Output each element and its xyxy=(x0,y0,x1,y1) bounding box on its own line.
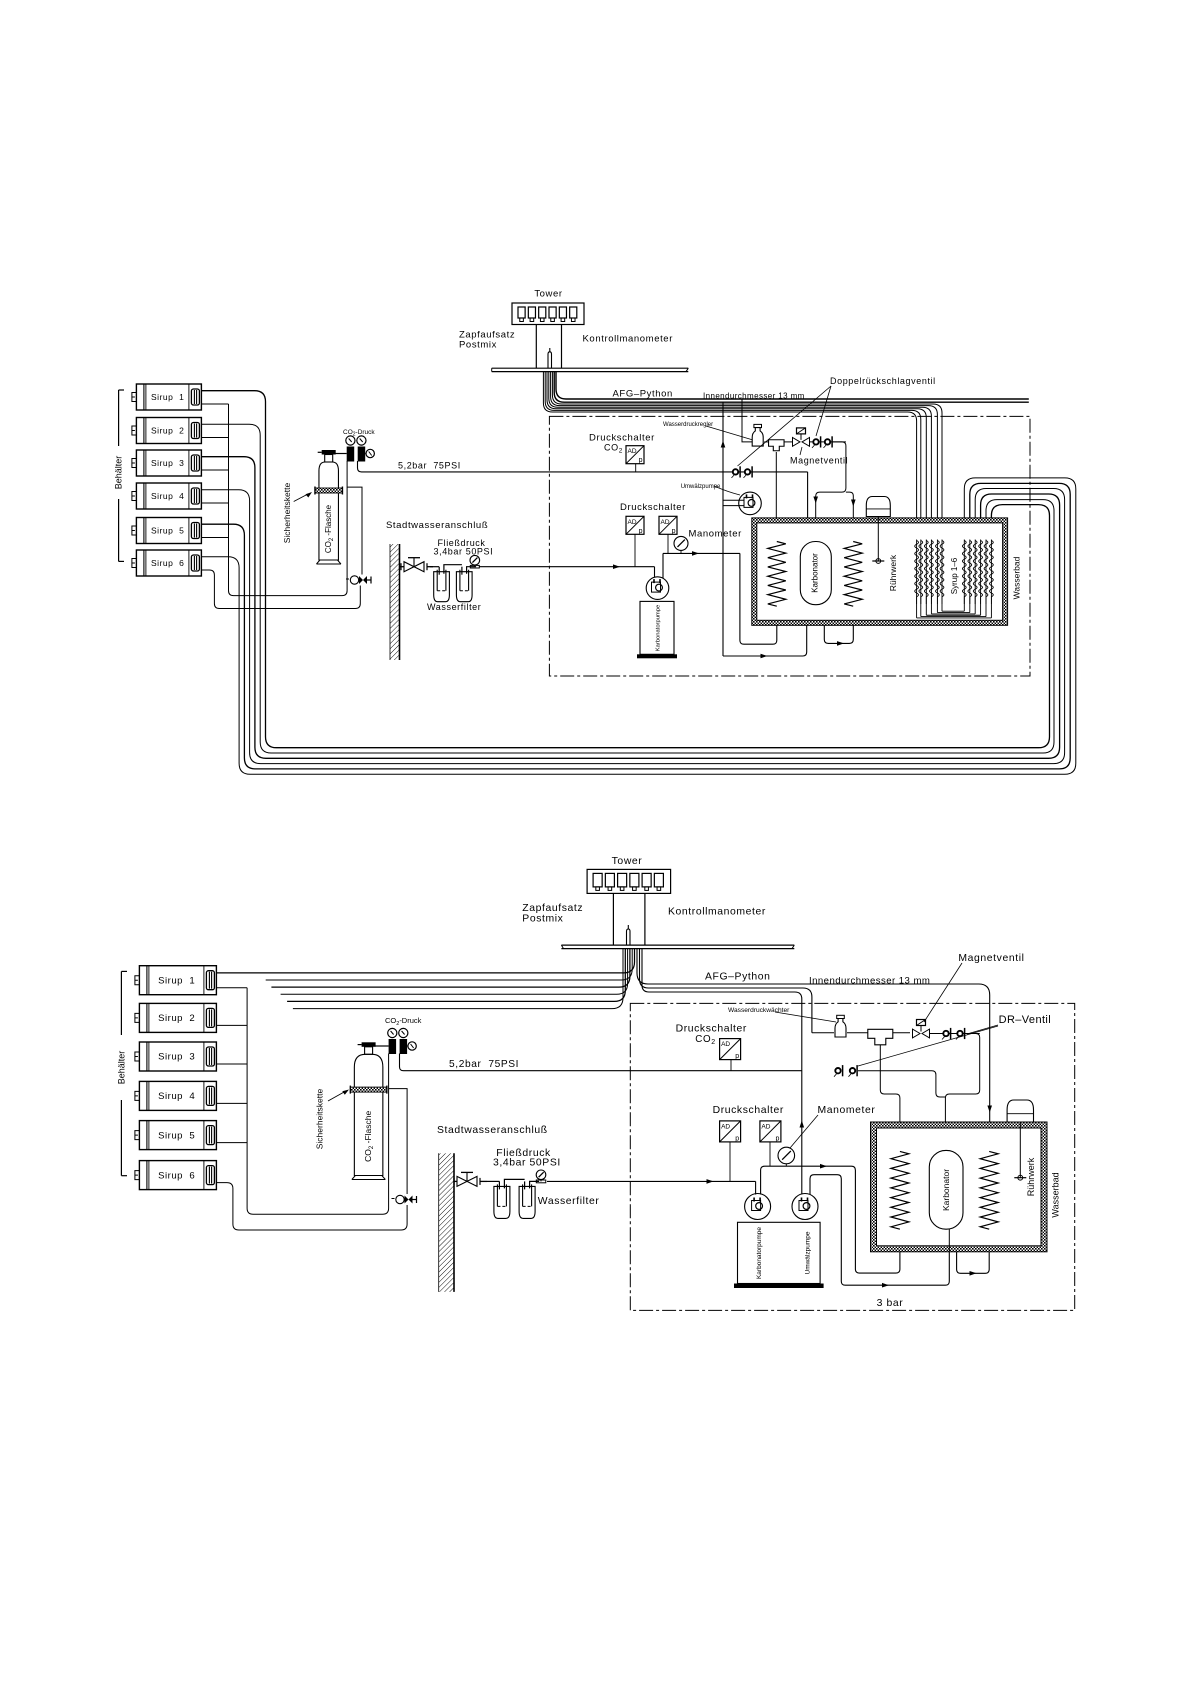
svg-text:Sirup 1: Sirup 1 xyxy=(151,392,184,402)
T-fitting (top) xyxy=(769,440,785,451)
svg-text:Magnetventil: Magnetventil xyxy=(790,456,848,466)
wire karbonator bottom stub (bottom) xyxy=(948,1229,950,1251)
carbonator vessel Karbonator (top) xyxy=(800,542,831,605)
svg-text:p: p xyxy=(639,457,643,464)
cooling coil 1 (top) xyxy=(768,542,786,607)
wire pump2 outlet line (bottom) xyxy=(810,1175,949,1286)
svg-text:Druckschalter: Druckschalter xyxy=(620,502,686,513)
wire regulator riser (top) xyxy=(742,399,752,442)
wire regler to T (top) xyxy=(764,441,768,443)
DR check valves CO2 line (bottom) xyxy=(834,1065,857,1077)
svg-text:DR–Ventil: DR–Ventil xyxy=(999,1014,1052,1026)
wire CO2 to karbonator (bottom) xyxy=(858,1071,945,1097)
svg-text:Sirup 5: Sirup 5 xyxy=(158,1130,195,1141)
svg-text:Zapfaufsatz: Zapfaufsatz xyxy=(522,903,583,914)
svg-text:Syrup 1–6: Syrup 1–6 xyxy=(950,557,959,594)
T-fitting (bottom) xyxy=(868,1029,893,1045)
svg-text:Behälter: Behälter xyxy=(116,1051,126,1085)
wire CO2 main 5,2bar line (top) xyxy=(358,461,724,472)
wire city water line to machine (top) xyxy=(480,566,655,568)
wire AFG-Python bundle (top) xyxy=(543,372,1028,540)
water filters (top) xyxy=(434,565,476,602)
wire DR output down (bottom) xyxy=(945,1034,979,1151)
CO2 bottle CO2-Flasche (bottom) xyxy=(350,1042,387,1179)
svg-text:5,2bar 75PSI: 5,2bar 75PSI xyxy=(398,460,461,470)
cooling coil 2 (top) xyxy=(844,542,862,607)
wire python riser stub (top) xyxy=(548,348,552,368)
pressure switch 2 AD/p (top) xyxy=(659,516,677,535)
wire T to solenoid (top) xyxy=(784,441,792,443)
counter top (bottom diagram) xyxy=(561,945,794,949)
agitator Ruehrwerk (bottom) xyxy=(1007,1100,1033,1180)
label Syrup 1-6 (top) xyxy=(949,553,961,599)
wall city water (top) xyxy=(390,544,400,660)
tower (bottom diagram) xyxy=(587,869,671,893)
syrup container Sirup 2 (top) xyxy=(132,417,202,443)
counter top (top diagram) xyxy=(492,368,689,371)
machine cabinet boundary (top) xyxy=(549,416,1030,676)
wire syrup supply line 1 wrap (top) xyxy=(201,391,1049,748)
svg-text:Sirup 5: Sirup 5 xyxy=(151,526,184,536)
svg-text:p: p xyxy=(672,528,676,535)
pressure switch 1 AD/p (bottom) xyxy=(720,1121,741,1143)
svg-text:Wasserbad: Wasserbad xyxy=(1012,556,1022,599)
svg-text:5,2bar 75PSI: 5,2bar 75PSI xyxy=(449,1059,519,1070)
CO2 bottle CO2-Flasche (top) xyxy=(315,450,343,564)
pressure switch 1 AD/p (top) xyxy=(626,516,644,535)
syrup container Sirup 6 (top) xyxy=(132,550,202,576)
svg-text:Druckschalter: Druckschalter xyxy=(676,1024,747,1035)
pressure switch CO2 AD/p (top) xyxy=(626,446,644,465)
wire syrup supply line 4 wrap (top) xyxy=(201,488,1064,763)
water filters (bottom) xyxy=(487,1179,539,1218)
leader Umwaelzpumpe (top) xyxy=(714,486,740,495)
svg-text:AD: AD xyxy=(661,519,670,526)
svg-text:AD: AD xyxy=(721,1123,730,1130)
pressure switch CO2 AD/p (bottom) xyxy=(720,1039,741,1061)
carbonator pump motor (top) xyxy=(646,577,669,600)
wire CO2 second outlet down (top) xyxy=(347,487,362,574)
wire checks to bath feeds (top) xyxy=(816,442,846,542)
pump base Karbonatorpumpe Umwaelzpumpe (bottom) xyxy=(734,1222,824,1288)
svg-text:Innendurchmesser 13 mm: Innendurchmesser 13 mm xyxy=(703,392,805,401)
wire city water line to machine (bottom) xyxy=(547,1180,756,1182)
wire CO2 switch stem (top) xyxy=(635,464,637,472)
syrup container Sirup 3 (bottom) xyxy=(135,1042,217,1071)
wire syrup supply line 3 wrap (top) xyxy=(201,457,1059,759)
leader Doppelrueckschlagventil 2 (top) xyxy=(738,386,832,466)
wire syrup supply line 6 wrap (top) xyxy=(201,478,1075,774)
svg-text:Tower: Tower xyxy=(534,288,562,299)
svg-text:AD: AD xyxy=(628,519,637,526)
inlet gate valve (top) xyxy=(400,558,434,572)
svg-text:Stadtwasseranschluß: Stadtwasseranschluß xyxy=(386,520,488,531)
wire switch2 stem (top) xyxy=(667,534,669,553)
svg-text:Manometer: Manometer xyxy=(817,1105,875,1116)
DR check valves (bottom) xyxy=(929,1028,979,1040)
svg-text:p: p xyxy=(735,1135,739,1142)
svg-text:Sirup 1: Sirup 1 xyxy=(158,975,195,986)
svg-text:Stadtwasseranschluß: Stadtwasseranschluß xyxy=(437,1125,548,1136)
svg-text:3 bar: 3 bar xyxy=(877,1298,904,1309)
wire karbonator to coil2 bottom (top) xyxy=(824,605,853,644)
svg-text:Karbonatorpumpe: Karbonatorpumpe xyxy=(656,605,662,651)
svg-text:3,4bar 50PSI: 3,4bar 50PSI xyxy=(434,546,494,556)
carbonator pump body Karbonatorpumpe (top) xyxy=(637,601,677,658)
svg-text:AD: AD xyxy=(761,1123,770,1130)
wire switch1 stem (top) xyxy=(634,534,636,566)
svg-text:Sirup 3: Sirup 3 xyxy=(151,458,184,468)
svg-text:Sicherheitskette: Sicherheitskette xyxy=(282,482,292,543)
inlet gate valve (bottom) xyxy=(454,1172,487,1186)
syrup container Sirup 3 (top) xyxy=(132,450,202,476)
svg-text:AFG–Python: AFG–Python xyxy=(613,389,673,400)
leader Sicherheitskette arrow (top) xyxy=(294,494,308,502)
wire syrup supply line 5 wrap (top) xyxy=(201,483,1070,769)
svg-text:Wasserfilter: Wasserfilter xyxy=(538,1196,600,1207)
svg-text:Sirup 2: Sirup 2 xyxy=(158,1013,195,1024)
water pressure regulator (top) xyxy=(752,424,763,446)
cooling coil 2 (bottom) xyxy=(980,1151,998,1229)
svg-text:Sirup 6: Sirup 6 xyxy=(151,558,184,568)
svg-text:Manometer: Manometer xyxy=(689,529,742,540)
svg-text:Sirup 4: Sirup 4 xyxy=(158,1091,195,1102)
wire riser to karbonator bottom (top) xyxy=(723,605,807,656)
syrup container Sirup 4 (bottom) xyxy=(135,1081,217,1110)
wire container CO2 bus (top) xyxy=(201,404,347,596)
leader Magnetventil (bottom) xyxy=(924,963,962,1022)
wire tower feed lines (bottom) xyxy=(612,893,614,945)
shutoff valve below bottle (bottom) xyxy=(391,1195,416,1203)
water pressure monitor Wasserdruckwaechter (bottom) xyxy=(835,1015,846,1037)
wire container CO2 bus (bottom) xyxy=(216,988,388,1215)
water bath tank (bottom) xyxy=(870,1122,1047,1252)
svg-text:Rührwerk: Rührwerk xyxy=(1026,1157,1036,1196)
svg-text:Wasserbad: Wasserbad xyxy=(1050,1172,1060,1217)
pressure switch 2 AD/p (bottom) xyxy=(760,1121,781,1143)
wire pump outlet line (top) xyxy=(663,552,740,554)
svg-text:Karbonatorpumpe: Karbonatorpumpe xyxy=(756,1227,763,1279)
double check valve CO2 (top) xyxy=(732,466,753,478)
wire T to solenoid (bottom) xyxy=(893,1032,910,1034)
svg-text:Postmix: Postmix xyxy=(459,339,497,350)
circulation pump Umwaelzpumpe (top) xyxy=(723,492,761,515)
syrup coils Syrup 1-6 (top) xyxy=(915,540,994,618)
wire python riser stub (bottom) xyxy=(626,925,630,945)
wire coil2 bottom loop (bottom) xyxy=(957,1229,990,1273)
svg-text:Sirup 3: Sirup 3 xyxy=(158,1052,195,1063)
svg-text:Doppelrückschlagventil: Doppelrückschlagventil xyxy=(830,376,936,386)
shutoff valve below bottle (top) xyxy=(346,576,371,584)
flow pressure gauge (top) xyxy=(470,555,480,568)
svg-text:Behälter: Behälter xyxy=(114,456,124,490)
svg-text:Karbonator: Karbonator xyxy=(811,553,820,593)
syrup container Sirup 5 (bottom) xyxy=(135,1121,217,1150)
wire AFG-Python to machine (bottom) xyxy=(637,949,990,1152)
svg-text:Tower: Tower xyxy=(612,856,643,867)
double check valves after solenoid (top) xyxy=(810,436,846,448)
syrup container Sirup 5 (top) xyxy=(132,517,202,543)
wire riser to waechter (bottom) xyxy=(812,1032,834,1034)
tower (top diagram) xyxy=(512,303,584,325)
leader Sicherheitskette arrow (bottom) xyxy=(328,1091,345,1101)
wire main riser arrow (bottom) xyxy=(799,1121,804,1128)
wire CO2 down to Karbonator (top) xyxy=(807,472,809,542)
cooling coil 1 (bottom) xyxy=(891,1151,909,1229)
svg-text:AD: AD xyxy=(628,448,637,455)
wall city water (bottom) xyxy=(439,1153,454,1292)
bracket Behaelter (top) xyxy=(119,390,124,561)
wire container 6 CO2 line (top) xyxy=(201,570,360,609)
leader Magnetventil (top) xyxy=(800,447,802,455)
manometer (bottom) xyxy=(778,1147,795,1166)
wire syrup supply line 2 wrap (top) xyxy=(201,424,1054,753)
wire T stem to coil1 (bottom) xyxy=(880,1045,900,1151)
wire python riser main (top) xyxy=(722,402,724,656)
wire T stem to coil1 (top) xyxy=(775,452,777,542)
syrup container Sirup 4 (top) xyxy=(132,483,202,509)
svg-text:Druckschalter: Druckschalter xyxy=(713,1105,784,1116)
pump2 motor (bottom) xyxy=(792,1194,818,1220)
wire pump1 outlet line (bottom) xyxy=(761,1166,900,1273)
syrup container Sirup 1 (top) xyxy=(132,384,202,410)
pump1 motor (bottom) xyxy=(745,1194,771,1220)
svg-text:Sirup 2: Sirup 2 xyxy=(151,426,184,436)
wire water to pump1 (bottom) xyxy=(755,1181,757,1194)
wire CO2 switch stem (bottom) xyxy=(730,1060,732,1071)
svg-text:Karbonator: Karbonator xyxy=(941,1169,951,1211)
svg-text:AFG–Python: AFG–Python xyxy=(705,972,771,983)
svg-text:Sicherheitskette: Sicherheitskette xyxy=(314,1088,324,1149)
svg-text:Umwälzpumpe: Umwälzpumpe xyxy=(804,1231,811,1274)
carbonator vessel Karbonator (bottom) xyxy=(929,1150,963,1229)
syrup container Sirup 1 (bottom) xyxy=(135,966,217,995)
svg-text:p: p xyxy=(639,528,643,535)
wire switch2 stem (bottom) xyxy=(769,1142,771,1166)
svg-text:Magnetventil: Magnetventil xyxy=(958,953,1024,964)
solenoid valve Magnetventil (bottom) xyxy=(912,1020,929,1038)
wire CO2 second outlet down (bottom) xyxy=(389,1089,408,1194)
leader DR-Ventil 1 (bottom) xyxy=(967,1025,998,1034)
svg-text:Rührwerk: Rührwerk xyxy=(888,554,898,591)
water bath tank (top) xyxy=(752,518,1008,625)
solenoid valve Magnetventil (top) xyxy=(793,428,810,446)
syrup container Sirup 2 (bottom) xyxy=(135,1003,217,1032)
svg-text:Innendurchmesser 13 mm: Innendurchmesser 13 mm xyxy=(809,976,930,987)
wire regulator to container bus (top) xyxy=(346,461,348,463)
wire water to pump inlet (top) xyxy=(654,567,656,578)
flow pressure gauge (bottom) xyxy=(536,1170,546,1183)
leader Wasserdruckwaechter (bottom) xyxy=(775,1012,836,1022)
manometer (top) xyxy=(674,536,688,553)
wire waechter to T (bottom) xyxy=(847,1032,868,1034)
bracket Behaelter (bottom) xyxy=(121,971,127,1175)
wire syrup python lines (bottom) xyxy=(216,949,634,1009)
svg-text:Kontrollmanometer: Kontrollmanometer xyxy=(668,907,766,918)
svg-text:Kontrollmanometer: Kontrollmanometer xyxy=(583,333,673,344)
CO2 pressure regulator (bottom) xyxy=(375,1028,417,1054)
machine cabinet boundary (bottom) xyxy=(630,1003,1074,1310)
water line valve to filters (top) xyxy=(430,566,439,568)
CO2 pressure regulator (top) xyxy=(333,436,375,462)
svg-text:Umwälzpumpe: Umwälzpumpe xyxy=(681,484,721,490)
wire tower feed lines (top) xyxy=(535,324,537,368)
leader Wasserdruckregler (top) xyxy=(706,426,753,440)
wire regulator to bus (bottom) xyxy=(388,1053,390,1066)
wire pump to coil1 loop (top) xyxy=(740,553,777,644)
leader Doppelrueckschlagventil 1 (top) xyxy=(816,386,831,436)
svg-text:AD: AD xyxy=(721,1041,730,1048)
svg-text:Wasserdruckregler: Wasserdruckregler xyxy=(663,422,713,428)
wire switch1 stem (bottom) xyxy=(729,1142,731,1182)
svg-text:Postmix: Postmix xyxy=(522,913,563,924)
syrup container Sirup 6 (bottom) xyxy=(135,1161,217,1190)
wire container6 CO2 line (bottom) xyxy=(216,1183,407,1230)
leader Manometer (bottom) xyxy=(790,1115,818,1148)
svg-text:Sirup 4: Sirup 4 xyxy=(151,491,184,501)
svg-text:Wasserfilter: Wasserfilter xyxy=(427,602,481,612)
agitator Ruehrwerk (top) xyxy=(866,497,890,564)
wire CO2 line in machine (top) xyxy=(723,471,808,473)
svg-text:p: p xyxy=(775,1135,779,1142)
wire CO2 main 5,2bar line (bottom) xyxy=(399,1053,802,1070)
svg-text:3,4bar 50PSI: 3,4bar 50PSI xyxy=(493,1157,561,1168)
svg-text:Druckschalter: Druckschalter xyxy=(589,433,655,444)
svg-text:Sirup 6: Sirup 6 xyxy=(158,1170,195,1181)
svg-text:p: p xyxy=(735,1053,739,1060)
